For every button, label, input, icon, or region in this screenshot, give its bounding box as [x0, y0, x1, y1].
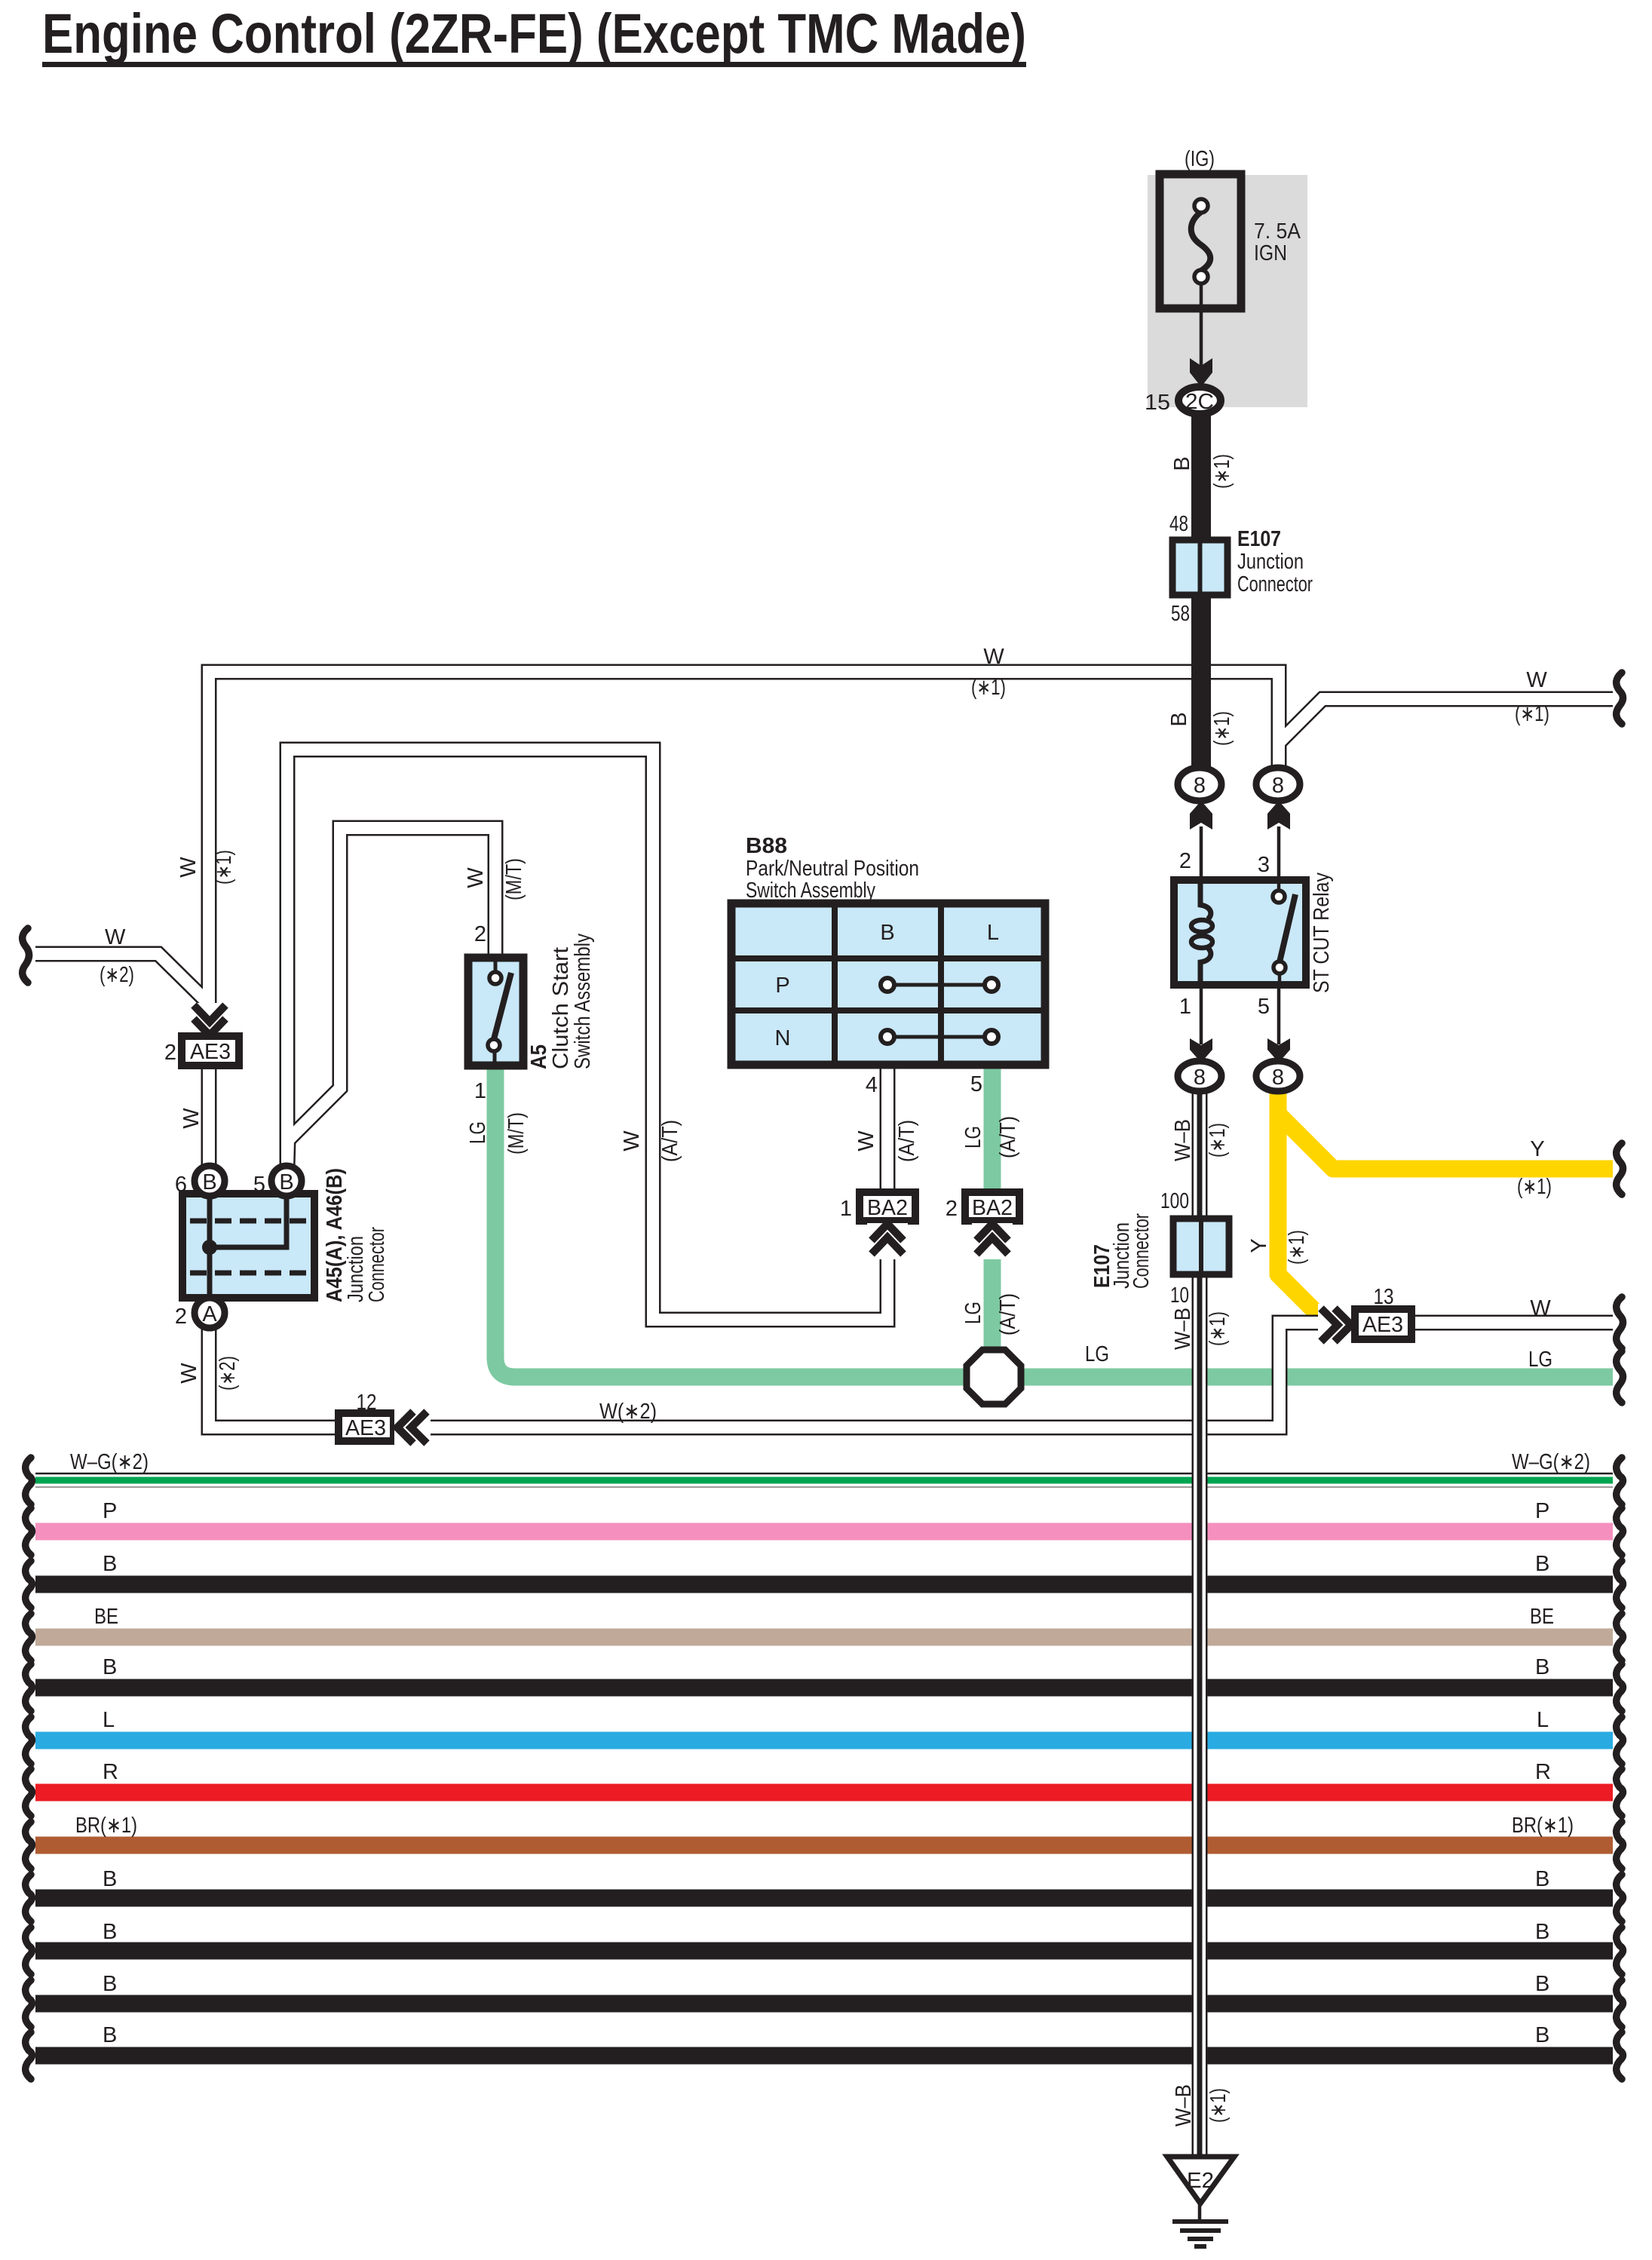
svg-text:AE3: AE3 — [1362, 1313, 1403, 1337]
svg-text:R: R — [1535, 1760, 1551, 1784]
svg-text:1: 1 — [840, 1197, 852, 1221]
svg-text:5: 5 — [970, 1072, 982, 1096]
A45 pin2 circle A — [195, 1298, 225, 1328]
svg-text:5: 5 — [1258, 995, 1270, 1019]
svg-text:ST CUT Relay: ST CUT Relay — [1310, 872, 1334, 993]
wire B bus 5 — [35, 1995, 1613, 2013]
wire P bus — [35, 1523, 1613, 1541]
fuse 7.5A IGN — [1160, 174, 1241, 308]
svg-text:Engine Control (2ZR-FE) (Excep: Engine Control (2ZR-FE) (Except TMC Made… — [42, 2, 1026, 65]
junction connector E107 lower — [1173, 1219, 1229, 1274]
svg-text:5: 5 — [253, 1173, 265, 1197]
wire Y from ST CUT relay pin5 oval to right edge — [1278, 1114, 1613, 1169]
chevron into AE3 pin12 — [394, 1409, 431, 1446]
svg-text:2: 2 — [1179, 849, 1191, 873]
svg-text:B: B — [103, 1655, 117, 1679]
svg-text:B88: B88 — [746, 834, 787, 858]
svg-text:2: 2 — [474, 922, 486, 946]
svg-text:E107: E107 — [1237, 527, 1281, 551]
squiggle W-G left — [26, 1458, 32, 1504]
svg-text:2: 2 — [175, 1305, 187, 1329]
wire B bus 4 — [35, 1943, 1613, 1960]
svg-text:B: B — [1535, 2023, 1549, 2047]
svg-text:BE: BE — [1530, 1605, 1554, 1629]
wire B thick from E107 to oval 8 — [1191, 595, 1211, 769]
svg-text:W: W — [620, 1130, 644, 1151]
svg-text:W: W — [105, 925, 126, 949]
svg-text:B: B — [103, 1552, 117, 1576]
squiggle P left — [26, 1508, 32, 1555]
svg-text:W: W — [179, 1108, 204, 1129]
svg-text:(M/T): (M/T) — [504, 1112, 529, 1155]
wire oval8 to relay pin2 — [1200, 826, 1203, 880]
squiggle L right — [1617, 1717, 1623, 1764]
svg-text:Switch Assembly: Switch Assembly — [571, 934, 595, 1069]
svg-text:8: 8 — [1272, 1066, 1284, 1090]
B88 P row contacts — [887, 983, 992, 987]
wire W(M/T): A5 pin2 loop to A45 pin5 — [287, 828, 495, 1167]
A45 pin6 circle B — [195, 1166, 225, 1196]
svg-text:15: 15 — [1145, 391, 1170, 415]
arrow down above oval right — [1267, 1038, 1290, 1063]
svg-text:7. 5A: 7. 5A — [1254, 219, 1301, 244]
squiggle B5 left — [26, 1980, 32, 2027]
B88 N row contacts — [887, 1035, 992, 1039]
oval 8 top-right — [1256, 768, 1300, 801]
wire W-B from oval 8 through E107 to E2 ground — [1192, 1090, 1208, 2157]
wire B bus 1 — [35, 1576, 1613, 1593]
squiggle W right — [1617, 1297, 1623, 1348]
svg-text:P: P — [775, 974, 789, 998]
wire fuse to 2C — [1200, 284, 1203, 371]
svg-text:13: 13 — [1374, 1285, 1394, 1309]
squiggle L left — [26, 1717, 32, 1764]
squiggle B5 right — [1617, 1980, 1623, 2027]
svg-text:P: P — [1535, 1499, 1549, 1523]
squiggle B2 left — [26, 1664, 32, 1711]
svg-text:W–B: W–B — [1171, 1119, 1195, 1161]
svg-text:N: N — [775, 1026, 791, 1050]
svg-text:W: W — [1526, 668, 1547, 692]
squiggle W(*1) right — [1617, 673, 1623, 724]
svg-text:4: 4 — [866, 1073, 878, 1097]
wire B bus 6 — [35, 2047, 1613, 2065]
svg-text:B: B — [1535, 1552, 1549, 1576]
wire BR bus — [35, 1837, 1613, 1854]
svg-text:B: B — [1535, 1972, 1549, 1996]
svg-text:Clutch Start: Clutch Start — [549, 947, 573, 1069]
svg-text:(∗1): (∗1) — [1210, 711, 1234, 746]
wire B bus 3 — [35, 1890, 1613, 1907]
relay ST CUT — [1174, 880, 1306, 985]
connector AE3 pin12 — [339, 1413, 394, 1441]
svg-text:(∗1): (∗1) — [1517, 1175, 1552, 1199]
wire LG from B88 pin5 to octagon — [984, 1065, 1001, 1357]
svg-text:BR(∗1): BR(∗1) — [1512, 1814, 1574, 1838]
svg-text:W: W — [1530, 1296, 1551, 1320]
squiggle B6 left — [26, 2032, 32, 2079]
svg-text:48: 48 — [1169, 512, 1188, 536]
wire Y from oval 8 down to AE3 pin13 chevron — [1278, 1090, 1329, 1325]
svg-text:Y: Y — [1247, 1238, 1271, 1253]
svg-text:L: L — [103, 1708, 115, 1732]
squiggle B3 right — [1617, 1875, 1623, 1921]
wire W(A/T): B88 pin4 to BA2-1 — [880, 1065, 896, 1192]
chevron into BA2 pin1 — [867, 1223, 908, 1259]
arrow up below oval right — [1267, 801, 1290, 829]
svg-text:1: 1 — [1179, 995, 1191, 1019]
arrow down above oval left — [1190, 1038, 1212, 1063]
arrow up below oval left — [1190, 801, 1212, 829]
wire W(*2) from A45 pinA to AE3-12 — [209, 1326, 339, 1427]
svg-text:LG: LG — [466, 1121, 490, 1144]
svg-text:B: B — [103, 1867, 117, 1891]
svg-text:Connector: Connector — [1237, 572, 1313, 596]
wire B bus 2 — [35, 1679, 1613, 1697]
wire oval8 to relay pin3 — [1277, 826, 1281, 880]
connector AE3 pin13 — [1355, 1309, 1411, 1339]
svg-text:2: 2 — [164, 1041, 176, 1065]
wire W(*1) loop: AE3-2 up, across top, down to oval 8 right — [209, 672, 1279, 1007]
svg-text:IGN: IGN — [1254, 241, 1287, 265]
wire W(*2) from AE3-12 to AE3-13 chevron — [394, 1323, 1333, 1427]
svg-text:W–G(∗2): W–G(∗2) — [70, 1450, 149, 1474]
svg-text:L: L — [1537, 1708, 1549, 1732]
svg-text:(∗1): (∗1) — [1210, 454, 1234, 489]
SQUIGGLES left — [23, 928, 32, 2079]
fuse area grey background — [1148, 175, 1307, 407]
svg-text:W–B: W–B — [1172, 2084, 1196, 2127]
squiggle BR left — [26, 1822, 32, 1869]
svg-text:Switch Assembly: Switch Assembly — [746, 879, 875, 903]
svg-text:W: W — [177, 1363, 201, 1384]
arrow into 2C — [1190, 358, 1212, 387]
svg-text:B: B — [1535, 1867, 1549, 1891]
svg-text:BR(∗1): BR(∗1) — [75, 1814, 137, 1838]
octagon splice — [967, 1350, 1021, 1404]
SQUIGGLES right — [1617, 673, 1623, 2079]
wire W(*2) from left squiggle to AE3-2 — [35, 954, 209, 1004]
WHITE WIRES white pass — [35, 672, 1613, 1427]
squiggle R right — [1617, 1769, 1623, 1816]
squiggle P right — [1617, 1508, 1623, 1555]
svg-text:B: B — [1167, 712, 1191, 726]
squiggle BE left — [26, 1614, 32, 1661]
squiggle B3 left — [26, 1875, 32, 1921]
svg-text:W: W — [854, 1130, 878, 1151]
svg-text:(A/T): (A/T) — [658, 1120, 682, 1162]
squiggle LG right — [1617, 1351, 1623, 1403]
junction connector E107 top — [1172, 540, 1228, 595]
wire R bus — [35, 1784, 1613, 1802]
svg-text:(∗2): (∗2) — [100, 963, 134, 987]
connector AE3 pin2 chevron — [189, 1003, 230, 1039]
wire relay pin1 to oval8 — [1200, 985, 1203, 1044]
squiggle B1 left — [26, 1561, 32, 1608]
svg-text:Connector: Connector — [1129, 1213, 1154, 1289]
svg-text:(∗1): (∗1) — [212, 850, 236, 885]
squiggle BR right — [1617, 1822, 1623, 1869]
squiggle B2 right — [1617, 1664, 1623, 1711]
svg-text:BE: BE — [94, 1605, 118, 1629]
svg-text:W–G(∗2): W–G(∗2) — [1512, 1450, 1590, 1474]
A45 pin5 circle B — [271, 1166, 302, 1196]
svg-text:LG: LG — [1085, 1342, 1109, 1366]
svg-text:12: 12 — [357, 1391, 377, 1415]
svg-text:(∗1): (∗1) — [1206, 1123, 1230, 1158]
svg-text:(M/T): (M/T) — [502, 858, 526, 900]
oval 8 bottom-right — [1256, 1061, 1300, 1091]
ground E2 — [1167, 2157, 1234, 2203]
svg-text:(∗1): (∗1) — [1285, 1230, 1309, 1265]
svg-text:R: R — [103, 1760, 118, 1784]
squiggle R left — [26, 1769, 32, 1816]
clutch start switch A5 — [468, 958, 523, 1066]
squiggle B6 right — [1617, 2032, 1623, 2079]
svg-text:LG: LG — [961, 1126, 985, 1148]
wire LG from A5 pin1 to right edge — [495, 1066, 1613, 1377]
svg-text:W: W — [464, 867, 488, 888]
svg-text:(∗2): (∗2) — [216, 1356, 240, 1391]
svg-text:P: P — [103, 1499, 117, 1523]
svg-text:(A/T): (A/T) — [996, 1116, 1020, 1158]
squiggle W(*2) left — [23, 928, 29, 983]
squiggle W-G right — [1617, 1458, 1623, 1504]
svg-text:L: L — [987, 921, 999, 945]
junction connector A45/A46 — [182, 1194, 314, 1298]
squiggle Y right — [1617, 1143, 1623, 1194]
svg-text:A5: A5 — [527, 1044, 551, 1069]
svg-text:8: 8 — [1272, 774, 1284, 798]
svg-text:AE3: AE3 — [345, 1416, 386, 1440]
svg-text:AE3: AE3 — [190, 1040, 231, 1064]
svg-text:BA2: BA2 — [867, 1196, 908, 1220]
svg-text:100: 100 — [1160, 1189, 1189, 1213]
svg-text:(∗1): (∗1) — [1206, 2088, 1231, 2123]
svg-text:Junction: Junction — [1237, 550, 1304, 574]
svg-text:(∗1): (∗1) — [1206, 1311, 1230, 1346]
svg-text:B: B — [1535, 1655, 1549, 1679]
svg-text:B: B — [1535, 1920, 1549, 1944]
chevron into AE3 pin13 — [1318, 1304, 1353, 1346]
svg-text:LG: LG — [1528, 1348, 1552, 1372]
wire W-G bus — [35, 1473, 1613, 1475]
svg-text:2: 2 — [946, 1197, 958, 1221]
svg-text:B: B — [103, 1920, 117, 1944]
svg-text:Y: Y — [1530, 1137, 1544, 1161]
wire B thick from 2C oval to E107 — [1191, 413, 1211, 540]
svg-text:58: 58 — [1171, 602, 1190, 626]
svg-text:A: A — [202, 1302, 217, 1326]
svg-text:W: W — [176, 857, 201, 878]
wire W from AE3-2 to A45 pin6 — [201, 1066, 217, 1166]
svg-text:Park/Neutral Position: Park/Neutral Position — [746, 857, 919, 881]
connector BA2 pin2 — [965, 1192, 1019, 1221]
svg-text:10: 10 — [1170, 1283, 1189, 1308]
oval 8 bottom-left — [1178, 1061, 1221, 1091]
wire E2 stem — [1198, 2203, 1202, 2220]
connector AE3 pin2 — [182, 1036, 239, 1066]
svg-text:W: W — [983, 645, 1004, 669]
svg-text:W(∗2): W(∗2) — [599, 1400, 657, 1424]
svg-text:Connector: Connector — [365, 1227, 389, 1302]
svg-text:2C: 2C — [1185, 390, 1214, 414]
svg-text:LG: LG — [961, 1302, 985, 1324]
svg-text:B: B — [103, 1972, 117, 1996]
WHITE WIRES black pass — [35, 672, 1613, 1427]
squiggle BE right — [1617, 1614, 1623, 1661]
wire W from AE3-13 to right edge — [1411, 1315, 1613, 1331]
svg-text:1: 1 — [474, 1079, 486, 1103]
connector oval 2C — [1178, 387, 1221, 414]
svg-text:B: B — [279, 1170, 293, 1194]
svg-text:3: 3 — [1258, 853, 1270, 877]
svg-text:(A/T): (A/T) — [996, 1293, 1020, 1335]
wire W(A/T): A45 pin5 loop to BA2-1 — [287, 750, 887, 1320]
chevron into BA2 pin2 — [972, 1223, 1013, 1259]
svg-text:E2: E2 — [1187, 2169, 1214, 2193]
wire BE bus — [35, 1629, 1613, 1646]
park/neutral switch B88 — [731, 903, 1045, 1065]
svg-text:W–B: W–B — [1171, 1308, 1195, 1350]
squiggle B1 right — [1617, 1561, 1623, 1608]
svg-text:B: B — [103, 2023, 117, 2047]
squiggle B4 left — [26, 1927, 32, 1974]
svg-text:B: B — [1170, 456, 1194, 471]
oval 8 top-left — [1178, 768, 1221, 801]
svg-text:B: B — [880, 921, 894, 945]
svg-text:8: 8 — [1194, 1066, 1206, 1090]
svg-text:(IG): (IG) — [1185, 147, 1215, 171]
svg-text:BA2: BA2 — [972, 1196, 1013, 1220]
svg-text:B: B — [202, 1170, 216, 1194]
connector BA2 pin1 — [860, 1192, 915, 1221]
squiggle B4 right — [1617, 1927, 1623, 1974]
wire W(*1) branch to right edge — [1279, 699, 1613, 743]
svg-text:(∗1): (∗1) — [1515, 702, 1549, 726]
svg-text:6: 6 — [175, 1173, 187, 1197]
svg-text:(∗1): (∗1) — [971, 676, 1006, 700]
svg-text:8: 8 — [1194, 774, 1206, 798]
wire L bus — [35, 1732, 1613, 1749]
svg-text:(A/T): (A/T) — [895, 1120, 919, 1162]
wire relay pin5 to oval8 — [1277, 985, 1281, 1044]
